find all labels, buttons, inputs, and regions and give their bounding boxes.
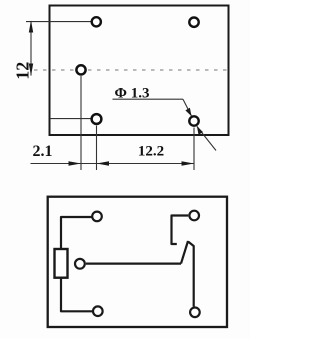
pin 3 (common, middle-left): [75, 259, 85, 269]
arrowhead up: [29, 20, 33, 32]
pin 5 (top-right): [189, 211, 199, 221]
fixed contact from pin 5: [172, 216, 189, 245]
hole bottom-right: [189, 116, 198, 125]
hole top-left: [92, 17, 101, 26]
svg-text:2.1: 2.1: [33, 143, 53, 160]
arrow pointing right at x=81: [69, 161, 82, 166]
centerline (dashed) through middle hole row: [34, 69, 228, 71]
arrow pointing right at x=194: [182, 161, 195, 166]
armature (movable contact): [181, 241, 188, 264]
coil: [55, 249, 68, 278]
line from left edge to bottom-left hole: [50, 118, 91, 120]
arrow pointing left at x=96.5: [97, 161, 110, 166]
schematic box: [48, 197, 227, 327]
wire coil top to pin 1: [61, 217, 92, 249]
svg-text:12.2: 12.2: [138, 144, 164, 160]
extension line from bottom-right hole down: [193, 128, 195, 171]
dimension line 12 (vertical): [30, 22, 32, 76]
common wire to armature: [86, 263, 181, 265]
lower arrowhead pointing at hole: [197, 126, 203, 135]
shared dimension line 2.1 / 12.2: [31, 163, 195, 165]
leader underline: [113, 98, 184, 100]
armature pivot link: [188, 242, 194, 307]
pin 4 (bottom-right): [190, 308, 200, 318]
leader diagonal upper segment: [183, 99, 192, 116]
extension line from middle hole down: [80, 76, 82, 170]
hole top-right: [189, 18, 198, 27]
arrowhead down: [29, 64, 33, 77]
pin 2 (bottom-left): [93, 306, 103, 316]
svg-text:12: 12: [13, 62, 33, 80]
hole middle-left: [76, 65, 85, 74]
pin 1 (top-left): [92, 212, 102, 222]
hole bottom-left: [92, 114, 102, 124]
wire coil bottom to pin 2: [61, 278, 93, 312]
relay body outline (top view): [50, 6, 229, 136]
extension line from bottom-left hole down: [96, 126, 98, 171]
leader diagonal lower segment: [197, 126, 216, 150]
upper arrowhead pointing at hole: [185, 108, 191, 116]
extension line top hole row: [26, 21, 91, 23]
